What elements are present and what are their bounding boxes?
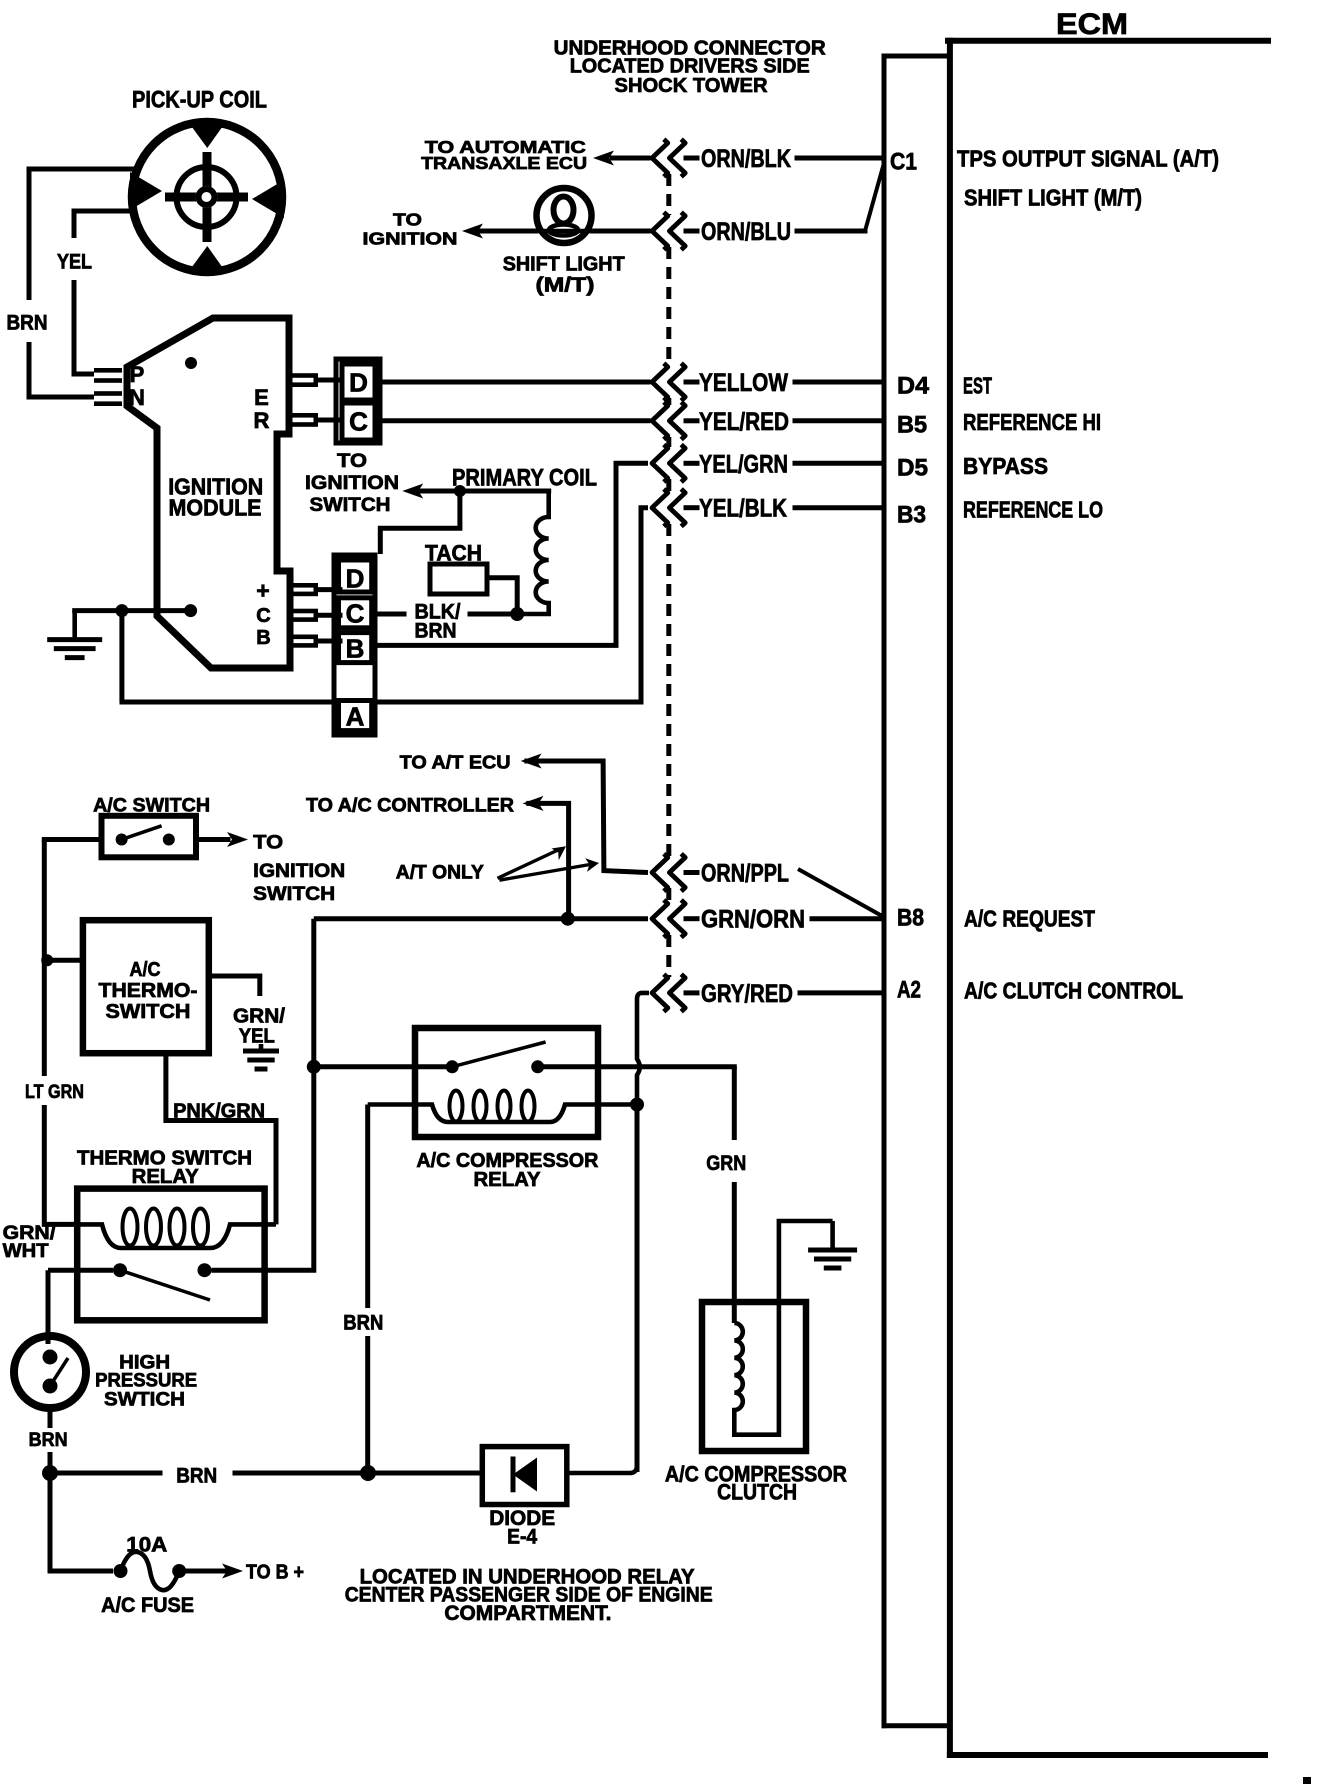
svg-text:BRN: BRN [343,1311,383,1334]
svg-text:A/C REQUEST: A/C REQUEST [964,905,1095,931]
svg-text:C: C [349,406,368,436]
A/C switch box [102,816,197,858]
svg-text:SWITCH: SWITCH [253,883,335,905]
svg-text:N: N [129,385,145,410]
wire ground junction down to slot A line [119,611,124,702]
svg-text:IGNITION: IGNITION [305,472,399,494]
wire ORN/BLK to pin C1 [797,156,884,161]
wire stub [686,870,697,875]
svg-text:C: C [346,598,365,628]
wire HP switch lower stub [48,1408,53,1428]
svg-text:GRY/RED: GRY/RED [701,980,793,1008]
wire ignition feed to strip [380,491,460,554]
connector chevron YEL/GRN [652,445,685,482]
wire pin B to slot B [316,639,340,644]
svg-text:ECM: ECM [1056,8,1128,41]
wire shift light to chevron [592,229,648,234]
thermo relay switch contacts [113,1263,127,1277]
wire YEL/BLK from slot A [641,508,648,702]
junction LT GRN / thermo switch [41,954,53,966]
svg-text:MODULE: MODULE [169,494,262,520]
wire GRN lower into clutch [732,1182,737,1323]
A/C compressor relay box [415,1028,598,1137]
svg-text:YEL/BLK: YEL/BLK [699,495,787,523]
wire stub [686,380,697,385]
wire YEL upper segment [74,211,133,238]
connector chevron ORN/PPL [652,854,685,891]
module mounting dot [185,357,197,369]
wire ORN/BLK left stub [612,156,648,161]
connector column left wall [882,56,887,1726]
arrow to A/T ECU [521,754,542,769]
wire stub [686,916,697,921]
svg-text:SWITCH: SWITCH [106,1001,191,1023]
wire stub [686,418,697,423]
shift light lamp [536,188,592,243]
svg-text:RELAY: RELAY [132,1166,200,1188]
svg-text:D: D [349,367,368,397]
wire pin + to slot D [316,587,340,592]
A/C switch right contact [163,834,175,846]
pick-up coil (distributor) [130,122,284,272]
svg-text:TO: TO [393,209,422,229]
wire BRN lower [365,1336,370,1473]
arrow to automatic transaxle ECU [593,151,614,166]
A/C switch blade [122,826,162,840]
svg-text:BRN: BRN [415,620,457,643]
svg-text:D4: D4 [897,373,930,400]
ground (clutch) [808,1221,857,1268]
wire LT GRN to A/C switch [44,837,101,842]
svg-text:(M/T): (M/T) [536,275,595,297]
wire BRN bus right [235,1471,482,1476]
svg-text:+: + [256,577,269,603]
svg-text:ORN/BLU: ORN/BLU [701,218,791,246]
wire GRN/ORN [314,916,648,921]
svg-text:B: B [346,633,365,663]
A/C relay switch blade [452,1042,545,1067]
svg-text:BRN: BRN [7,312,48,335]
svg-text:YEL: YEL [239,1026,275,1048]
svg-text:REFERENCE LO: REFERENCE LO [963,496,1103,522]
wire A/C switch to ignition switch [196,837,228,842]
svg-text:A2: A2 [897,977,921,1004]
wire pin E to slot D [316,378,342,383]
svg-text:TO B +: TO B + [246,1562,304,1584]
A/C relay right contact [531,1060,544,1073]
connector chevron GRY/RED [652,974,685,1011]
wire ORN/PPL diagonal to pin B8 [798,869,883,917]
diode symbol [511,1457,516,1493]
wire YEL/GRN to pin D5 [795,461,884,466]
svg-text:TO A/T ECU: TO A/T ECU [400,752,511,773]
svg-text:D5: D5 [897,454,928,481]
wire BRN stub to junction [48,1452,53,1473]
svg-text:LT GRN: LT GRN [25,1082,84,1103]
svg-text:WHT: WHT [3,1241,49,1262]
stray mark bottom right [1303,1777,1311,1784]
svg-text:CLUTCH: CLUTCH [717,1480,797,1505]
wire GRN/WHT inside relay [48,1268,113,1273]
svg-text:TO A/C CONTROLLER: TO A/C CONTROLLER [306,795,514,816]
wire slot B to YEL/GRN riser [375,643,616,648]
module pin C fork [291,609,318,622]
svg-text:TPS OUTPUT SIGNAL (A/T): TPS OUTPUT SIGNAL (A/T) [957,145,1219,171]
svg-text:BRN: BRN [176,1465,217,1488]
ECM top edge [948,38,1268,44]
svg-text:SHIFT LIGHT (M/T): SHIFT LIGHT (M/T) [964,184,1142,210]
svg-text:IGNITION: IGNITION [253,860,345,882]
wire GRY/RED elbow and riser [637,993,649,1105]
svg-text:TACH: TACH [425,540,482,565]
wire YEL/RED to pin B5 [795,418,884,423]
wire YEL/GRN from slot B [616,463,648,645]
module pin B fork [291,635,318,648]
HP switch top contact [43,1350,58,1365]
wire LT GRN lower to relay coil [44,1105,77,1224]
wire GRY/RED to pin A2 [800,990,884,995]
A/C switch left contact [116,834,128,846]
svg-text:IGNITION: IGNITION [363,228,458,248]
ignition module body [127,318,290,668]
connector chevron GRN/ORN [652,900,685,937]
wire diode to GRY/RED riser [567,1465,637,1473]
wire slot A to ground junction [122,700,641,705]
svg-text:BYPASS: BYPASS [963,453,1048,479]
svg-text:P: P [130,362,145,387]
wire stub [686,990,697,995]
junction GRN/ORN / controller branch [561,912,575,926]
wire YEL/BLK to pin B3 [795,505,884,510]
wire to A/C fuse [50,1473,113,1571]
wire to high pressure switch [46,1270,51,1344]
svg-text:SHIFT LIGHT: SHIFT LIGHT [503,254,625,276]
wire YEL/RED from slot C [375,418,648,423]
svg-text:A/C CLUTCH CONTROL: A/C CLUTCH CONTROL [964,977,1183,1003]
svg-text:TO: TO [337,450,367,472]
fuse left terminal [114,1564,128,1578]
svg-text:GRN/ORN: GRN/ORN [701,906,805,934]
arrow to ignition switch [227,832,248,847]
connector chevron YEL/RED [652,402,685,439]
connector chevron ORN/BLU [652,212,685,249]
svg-text:D: D [346,563,365,593]
svg-text:A/C: A/C [130,959,161,981]
module pin N fork [94,391,122,406]
svg-text:C1: C1 [890,149,917,176]
wire stub [686,461,697,466]
svg-text:B3: B3 [897,502,926,529]
svg-text:GRN: GRN [706,1152,746,1175]
A/C relay coil [368,1105,637,1123]
arrow to A/C controller [523,796,544,811]
wire LT GRN upper [42,840,47,1077]
HP switch bottom contact [43,1379,58,1394]
A/C compressor clutch box [702,1302,806,1451]
connector column top cap [884,54,949,59]
wire pin C to slot C [316,613,340,618]
svg-text:PICK-UP COIL: PICK-UP COIL [132,87,267,114]
svg-text:E: E [254,385,269,410]
svg-text:ORN/BLK: ORN/BLK [701,145,791,173]
wire BRN upper segment [29,169,136,300]
tach box [430,564,487,594]
svg-text:BRN: BRN [29,1430,68,1451]
junction BRN [42,1465,58,1481]
wire ORN/BLU [797,229,865,234]
wire YELLOW from slot D [375,380,648,385]
svg-text:C: C [256,605,270,627]
connector strip D/C (upper) [336,359,380,443]
svg-text:YEL: YEL [57,251,92,274]
module ground terminal dot [184,604,197,617]
svg-text:A/T ONLY: A/T ONLY [396,862,484,883]
wire ORN/PPL to A/T ECU [524,761,648,873]
ground (module) [47,611,102,658]
wire junction to relay switch [314,1064,445,1069]
wire tach to junction [487,578,517,614]
svg-text:PNK/GRN: PNK/GRN [173,1101,265,1123]
wire YEL lower segment to pin P [74,280,94,374]
wire ignition feed [421,489,549,494]
wire BLK/BRN to junction [470,612,517,617]
svg-text:B5: B5 [897,412,927,439]
junction tach/primary coil [510,607,524,621]
clutch coil [734,1221,832,1435]
svg-text:PRIMARY COIL: PRIMARY COIL [452,465,597,492]
junction GRY/RED / relay coil [630,1098,644,1112]
ground (GRN/YEL) [243,1044,279,1069]
svg-text:SHOCK TOWER: SHOCK TOWER [615,75,769,97]
wire BRN lower segment to pin N [29,342,94,397]
wire fuse to B+ [186,1569,226,1574]
module pin R fork [290,413,318,427]
module pin + fork [291,583,318,596]
svg-text:A/C FUSE: A/C FUSE [101,1594,194,1617]
thermo relay switch blade [120,1270,210,1300]
harness connector dashed line [666,174,671,977]
connector chevron ORN/BLK [652,139,685,176]
svg-text:10A: 10A [126,1534,167,1557]
connector column bottom cap [884,1723,948,1728]
A/C thermo-switch box [83,920,209,1053]
primary coil inductor [517,491,549,614]
wire GRN upper [732,1067,737,1140]
wire to shift light [478,229,536,234]
connector chevron YEL/BLK [652,489,685,526]
wire relay switch to clutch GRN [545,1064,734,1069]
module pin E fork [290,373,318,387]
fuse element [121,1552,180,1590]
connector strip D/C/B/A (lower) [334,555,375,735]
svg-text:THERMO-: THERMO- [99,980,198,1002]
connector chevron YELLOW [652,363,685,400]
wire A/C controller branch [526,803,568,918]
svg-text:ORN/PPL: ORN/PPL [701,860,789,888]
svg-text:RELAY: RELAY [474,1169,542,1191]
svg-text:A: A [346,701,365,731]
svg-text:SWTICH: SWTICH [104,1389,185,1410]
wire chevron to label [686,229,697,234]
junction ignition feed [454,485,466,497]
A/C relay left contact [446,1060,459,1073]
ECM left edge / connector right wall [947,41,953,1755]
wire YELLOW to pin D4 [795,380,884,385]
wire ORN/BLU diagonal to C1 [865,163,884,231]
module pin P fork [94,368,122,383]
ECM bottom edge [950,1752,1265,1758]
junction at A/C compressor relay feed [307,1060,321,1074]
wire GRN/ORN to pin B8 [812,916,884,921]
wire GRN/YEL stub [209,976,260,996]
wire pin R to slot C [316,418,342,423]
svg-text:GRN/: GRN/ [233,1006,285,1028]
svg-text:COMPARTMENT.: COMPARTMENT. [444,1602,611,1625]
HP switch blade [50,1358,68,1386]
junction BRN riser [360,1465,376,1481]
arrow to B+ [222,1564,243,1579]
svg-text:R: R [254,408,270,433]
A/T only pointer arrows [498,850,591,880]
high pressure switch [14,1336,86,1408]
wire slot C to BLK/BRN label [375,612,404,617]
wire chevron to label [686,156,697,161]
junction on ground wire [115,604,128,617]
thermo switch relay box [77,1189,264,1321]
svg-text:YEL/RED: YEL/RED [699,408,789,436]
arrow to ignition [462,224,483,239]
svg-text:EST: EST [963,373,992,399]
svg-text:TRANSAXLE ECU: TRANSAXLE ECU [421,153,587,173]
wire PNK/GRN [166,1053,276,1224]
wire GRY/RED down to diode [635,1105,640,1473]
diode E-4 box [482,1447,567,1505]
svg-text:YELLOW: YELLOW [699,369,788,397]
svg-text:YEL/GRN: YEL/GRN [699,450,788,478]
svg-text:B: B [256,627,270,649]
fuse right terminal [172,1564,186,1578]
wire stub [686,505,697,510]
thermo relay coil [77,1224,276,1248]
svg-text:REFERENCE HI: REFERENCE HI [963,409,1101,435]
svg-text:SWITCH: SWITCH [310,494,391,516]
svg-text:E-4: E-4 [507,1526,537,1549]
wire module ground [75,608,191,613]
wire LT GRN to thermo-switch [47,958,83,963]
svg-text:TO: TO [253,832,283,854]
wire BRN bus left [58,1471,160,1476]
wire thermo relay to GRN/ORN corner [212,919,314,1270]
arrow to ignition switch [402,484,423,499]
wire BRN from relay coil [365,1105,370,1309]
svg-text:B8: B8 [897,905,924,932]
